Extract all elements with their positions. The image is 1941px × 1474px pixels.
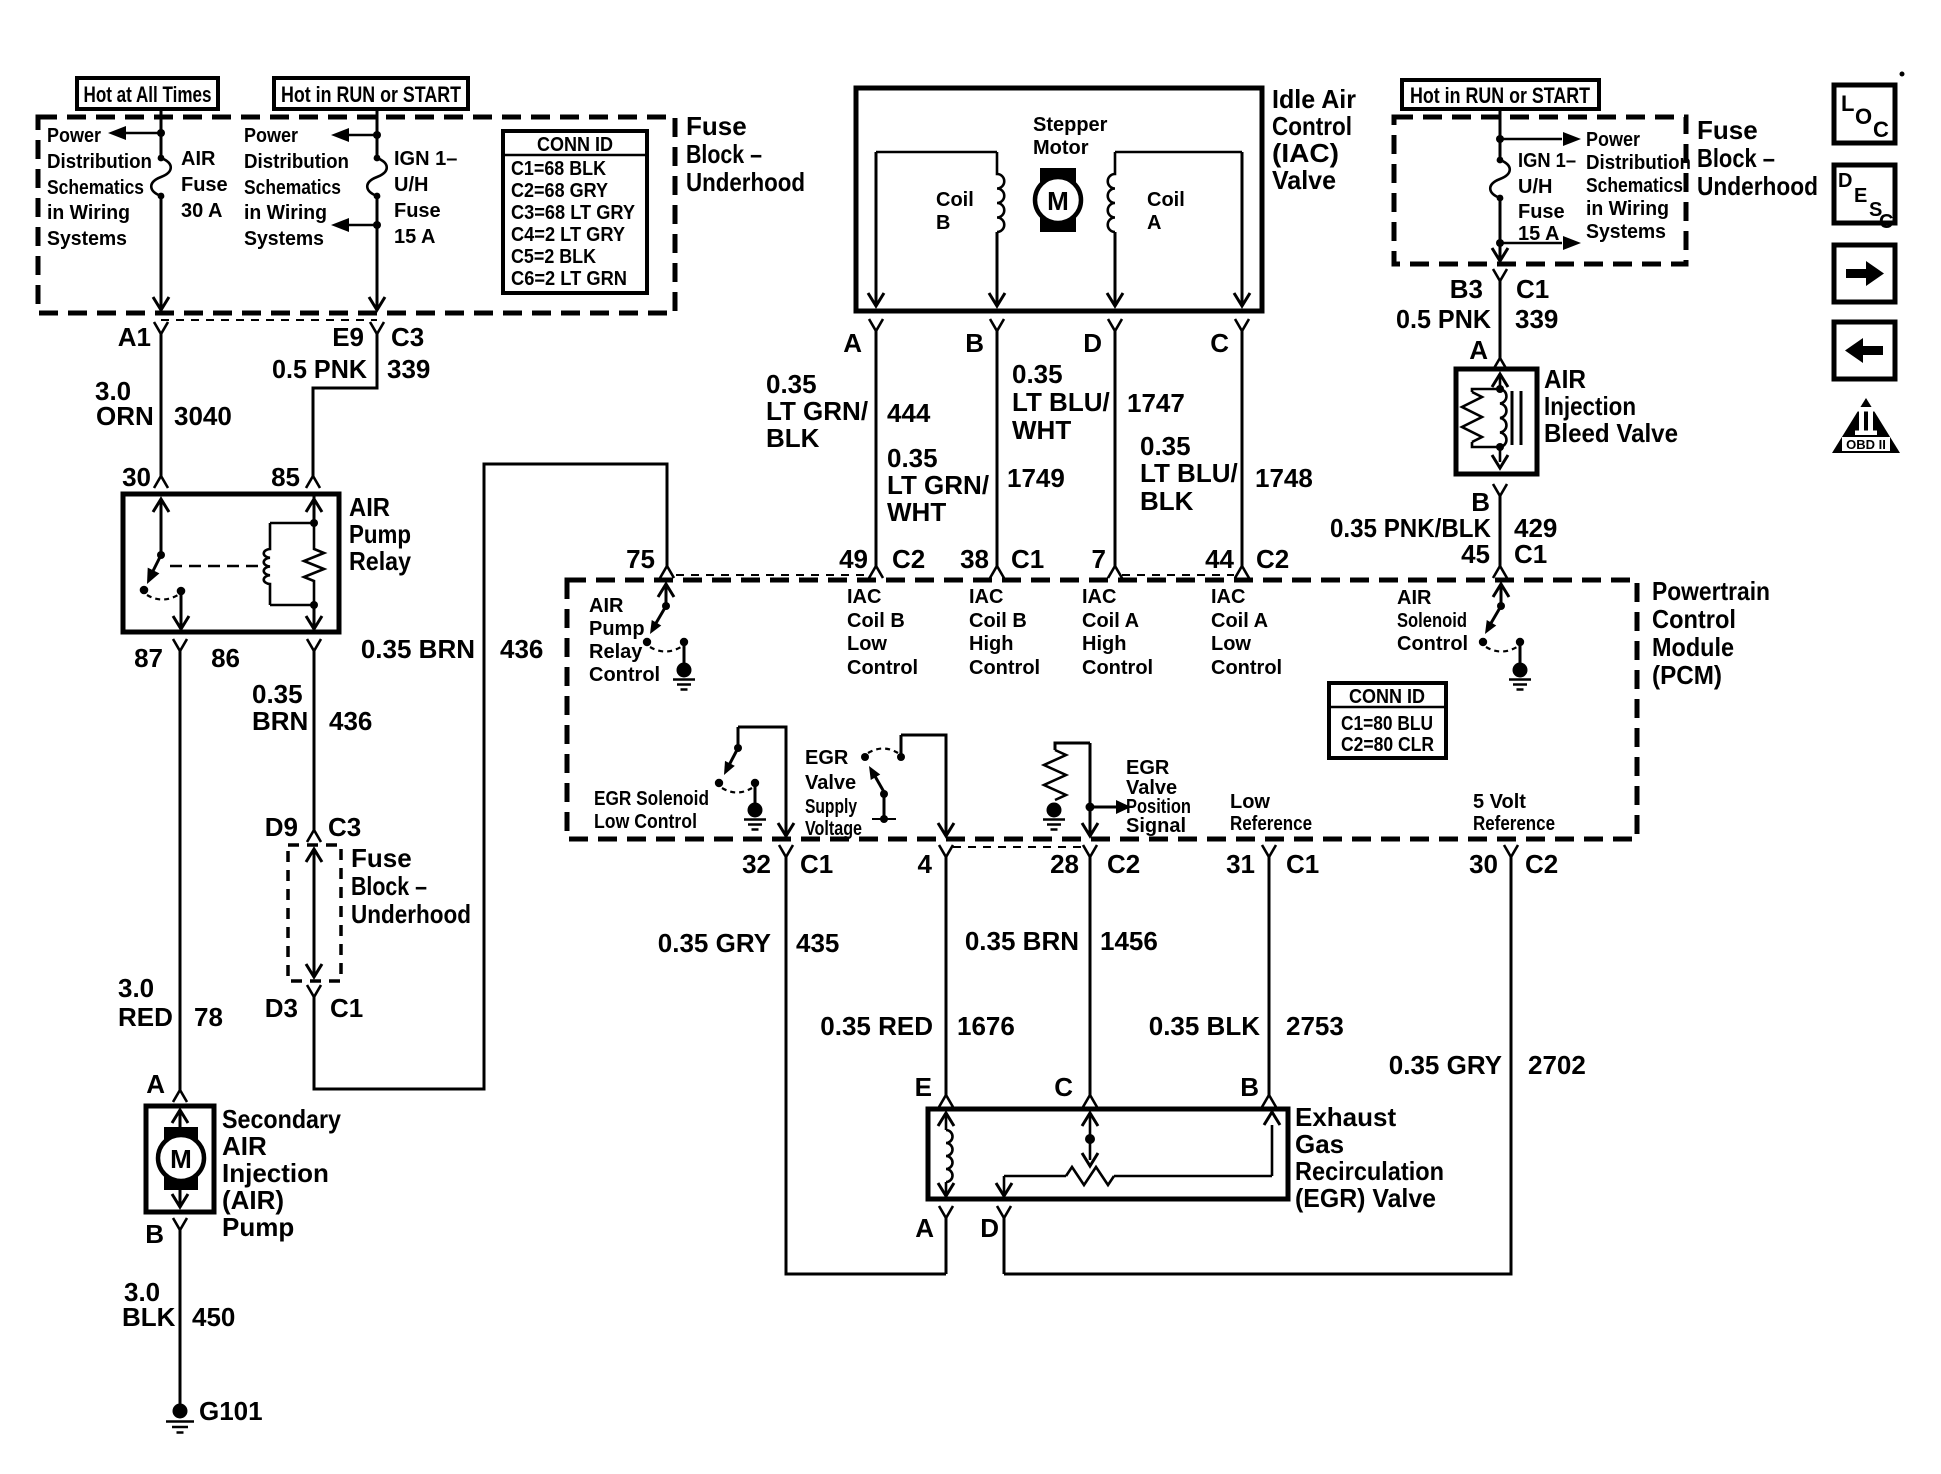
svg-text:Power: Power — [47, 125, 101, 147]
svg-text:Valve: Valve — [805, 772, 856, 794]
connector pin 4 — [939, 845, 953, 857]
EGR coil (pin E to A) — [938, 1113, 954, 1126]
svg-text:86: 86 — [211, 643, 240, 673]
relay coil top bus — [270, 522, 314, 525]
pump motor circle M — [158, 1135, 204, 1181]
svg-text:RED: RED — [118, 1002, 173, 1032]
svg-text:B: B — [965, 328, 984, 358]
svg-text:C: C — [1054, 1072, 1073, 1102]
svg-text:C1: C1 — [800, 849, 833, 879]
icon: back arrow box — [1834, 322, 1895, 379]
svg-text:Block –: Block – — [686, 139, 762, 169]
svg-text:AIR: AIR — [349, 492, 390, 522]
svg-text:Distribution: Distribution — [244, 151, 349, 173]
svg-text:Idle Air: Idle Air — [1272, 84, 1356, 114]
svg-text:C1: C1 — [1011, 544, 1044, 574]
junction dot — [1496, 135, 1504, 143]
svg-text:0.5 PNK: 0.5 PNK — [272, 354, 367, 384]
svg-text:Schematics: Schematics — [1586, 175, 1683, 197]
svg-text:85: 85 — [271, 462, 300, 492]
connector D9 / C3 — [307, 830, 321, 842]
AIR pump relay control driver switch — [658, 584, 674, 597]
svg-text:Pump: Pump — [349, 519, 411, 549]
svg-text:C2=80 CLR: C2=80 CLR — [1341, 734, 1434, 756]
relay pin 87 stem with down arrow — [180, 593, 183, 628]
svg-text:(AIR): (AIR) — [222, 1185, 284, 1215]
svg-text:Systems: Systems — [1586, 221, 1666, 243]
fuse AIR Fuse 30 A — [158, 155, 165, 162]
EGR valve position signal arrow — [1086, 803, 1095, 812]
svg-text:Block –: Block – — [1697, 143, 1775, 173]
relay armature arm — [150, 555, 161, 577]
svg-text:7: 7 — [1092, 544, 1106, 574]
svg-text:A: A — [915, 1213, 934, 1243]
svg-text:Supply: Supply — [805, 796, 858, 818]
svg-text:A: A — [843, 328, 862, 358]
svg-text:Gas: Gas — [1295, 1129, 1344, 1159]
wire: feed from Hot at All Times — [160, 109, 163, 158]
svg-text:C1=80 BLU: C1=80 BLU — [1341, 713, 1433, 735]
connector A1 — [154, 322, 168, 334]
bleed valve pin A arrow — [1492, 374, 1508, 387]
svg-text:0.35 GRY: 0.35 GRY — [1389, 1050, 1502, 1080]
svg-text:Control: Control — [589, 664, 660, 686]
svg-text:435: 435 — [796, 928, 839, 958]
svg-text:Coil: Coil — [936, 189, 974, 211]
svg-text:A: A — [1147, 212, 1161, 234]
svg-text:Control: Control — [969, 657, 1040, 679]
AIR solenoid control driver switch — [1493, 584, 1509, 597]
wire pin 28 inside PCM — [1089, 743, 1092, 834]
svg-text:U/H: U/H — [394, 174, 428, 196]
header box: Hot at All Times — [77, 78, 218, 109]
svg-text:IGN 1–: IGN 1– — [1518, 150, 1576, 172]
svg-text:Secondary: Secondary — [222, 1104, 341, 1134]
svg-text:444: 444 — [887, 398, 931, 428]
wire EGR D down — [1003, 1218, 1006, 1274]
svg-text:Control: Control — [1272, 111, 1352, 141]
EGR wiper (pin C) — [1082, 1113, 1098, 1126]
svg-text:Schematics: Schematics — [47, 177, 144, 199]
scan dot artifact — [1900, 72, 1905, 77]
svg-text:Coil A: Coil A — [1211, 610, 1268, 632]
svg-text:436: 436 — [329, 706, 372, 736]
connector A below IAC — [869, 319, 883, 331]
wire 0.5 PNK 339 (right) — [1499, 281, 1502, 358]
svg-text:Recirculation: Recirculation — [1295, 1156, 1444, 1186]
ground (AIR pump relay control) — [677, 663, 692, 678]
svg-text:Hot in RUN or START: Hot in RUN or START — [281, 82, 461, 107]
svg-text:Module: Module — [1652, 632, 1734, 662]
svg-text:AIR: AIR — [222, 1131, 267, 1161]
connector D below EGR — [997, 1206, 1011, 1218]
fuse block underhood small dashed box — [288, 845, 341, 981]
ground (AIR solenoid control) — [1513, 663, 1528, 678]
svg-text:in Wiring: in Wiring — [1586, 198, 1669, 220]
wire pin 31 to EGR B (0.35 BLK 2753) — [1268, 857, 1271, 1095]
svg-text:31: 31 — [1226, 849, 1255, 879]
junction dot — [157, 129, 165, 137]
svg-text:0.35 BRN: 0.35 BRN — [361, 634, 475, 664]
wire below IGN fuse — [376, 196, 379, 310]
AIR Injection Bleed Valve box — [1456, 369, 1537, 474]
svg-text:E: E — [915, 1072, 932, 1102]
svg-text:IGN 1–: IGN 1– — [394, 148, 457, 170]
relay mechanical dashed link — [170, 565, 258, 568]
CONN ID table (fuse block) — [503, 131, 647, 293]
svg-text:Coil B: Coil B — [847, 610, 905, 632]
connector B3 / C1 — [1493, 269, 1507, 281]
wire 3.0 ORN 3040 — [160, 334, 163, 476]
svg-text:87: 87 — [134, 643, 163, 673]
wire pin 30 to EGR D (0.35 GRY 2702) — [1004, 857, 1511, 1274]
svg-text:M: M — [170, 1144, 192, 1174]
svg-text:4: 4 — [918, 849, 933, 879]
coil B top bus to wire A — [876, 151, 997, 154]
svg-text:IAC: IAC — [969, 586, 1003, 608]
pump down arrow — [179, 1190, 182, 1207]
EGR valve position sense resistor — [1055, 743, 1090, 750]
connector D3 / C1 — [307, 985, 321, 997]
EGR position resistor — [1004, 1175, 1066, 1178]
svg-text:0.35: 0.35 — [1012, 359, 1063, 389]
AIR Pump Relay box — [123, 494, 339, 632]
Exhaust Gas Recirculation (EGR) Valve box — [928, 1109, 1288, 1199]
svg-text:38: 38 — [960, 544, 989, 574]
svg-text:WHT: WHT — [1012, 415, 1071, 445]
svg-text:B: B — [145, 1219, 164, 1249]
relay armature pivot dot — [157, 551, 165, 559]
svg-text:Systems: Systems — [47, 228, 127, 250]
svg-text:C2: C2 — [1256, 544, 1289, 574]
connector pin 32 C1 — [779, 845, 793, 857]
svg-text:Injection: Injection — [222, 1158, 329, 1188]
icon: DESC box — [1834, 165, 1895, 223]
svg-text:EGR: EGR — [1126, 757, 1170, 779]
wire IAC C to pin 44 (0.35 LT BLU/BLK 1748) — [1241, 331, 1244, 566]
connector pin 44 C2 — [1235, 566, 1249, 578]
svg-text:High: High — [969, 633, 1013, 655]
connector D below IAC — [1108, 319, 1122, 331]
header box: Hot in RUN or START (right) — [1402, 80, 1599, 109]
svg-text:Pump: Pump — [589, 618, 645, 640]
svg-text:Voltage: Voltage — [805, 818, 862, 840]
svg-text:2702: 2702 — [1528, 1050, 1586, 1080]
connector pin 7 — [1108, 566, 1122, 578]
svg-text:1749: 1749 — [1007, 463, 1065, 493]
svg-text:Control: Control — [1211, 657, 1282, 679]
wire 86 down (0.35 BRN 436) — [313, 651, 316, 830]
icon: LOC box — [1834, 85, 1895, 143]
svg-text:Powertrain: Powertrain — [1652, 576, 1770, 606]
svg-text:L: L — [1841, 91, 1854, 116]
wire EGR A down — [945, 1218, 948, 1274]
svg-text:C: C — [1879, 211, 1893, 233]
svg-text:B: B — [936, 212, 950, 234]
relay contact dot to pin 87 — [177, 587, 186, 596]
svg-text:A: A — [1469, 335, 1488, 365]
svg-text:in Wiring: in Wiring — [47, 202, 130, 224]
svg-text:0.35: 0.35 — [252, 679, 303, 709]
svg-text:0.35: 0.35 — [1140, 431, 1191, 461]
svg-text:(IAC): (IAC) — [1272, 138, 1339, 168]
Secondary AIR Injection Pump box — [146, 1106, 214, 1212]
svg-text:3040: 3040 — [174, 401, 232, 431]
CONN ID table (PCM) — [1329, 683, 1446, 758]
svg-text:49: 49 — [839, 544, 868, 574]
svg-text:C1: C1 — [330, 993, 363, 1023]
svg-text:Control: Control — [1082, 657, 1153, 679]
svg-text:2753: 2753 — [1286, 1011, 1344, 1041]
svg-text:G101: G101 — [199, 1396, 263, 1426]
relay coil — [264, 523, 270, 605]
svg-text:M: M — [1047, 186, 1069, 216]
Powertrain Control Module (PCM) dashed box — [567, 580, 1637, 839]
svg-text:Relay: Relay — [349, 546, 411, 576]
svg-text:Solenoid: Solenoid — [1397, 610, 1467, 632]
svg-text:B: B — [1240, 1072, 1259, 1102]
svg-text:C1: C1 — [1514, 539, 1547, 569]
svg-text:Schematics: Schematics — [244, 177, 341, 199]
svg-text:High: High — [1082, 633, 1126, 655]
svg-text:Coil B: Coil B — [969, 610, 1027, 632]
svg-text:Low Control: Low Control — [594, 811, 697, 833]
wire pin 28 to EGR C (0.35 BRN 1456) — [1089, 857, 1092, 1095]
wire 3.0 BLK 450 — [179, 1230, 182, 1404]
wire 436 routing to PCM pin 75 — [314, 464, 667, 1089]
svg-text:BLK: BLK — [766, 423, 820, 453]
svg-text:C: C — [1873, 117, 1889, 142]
svg-text:30: 30 — [1469, 849, 1498, 879]
svg-text:0.35 GRY: 0.35 GRY — [658, 928, 771, 958]
svg-text:Injection: Injection — [1544, 391, 1636, 421]
pump up arrow — [179, 1110, 182, 1128]
connector B at AIR pump — [173, 1218, 187, 1230]
svg-text:Distribution: Distribution — [1586, 152, 1691, 174]
coil A top bus to wire C — [1115, 151, 1242, 154]
svg-text:Reference: Reference — [1473, 813, 1555, 835]
fuse block underhood (right) dashed box — [1394, 117, 1686, 264]
svg-text:D3: D3 — [265, 993, 298, 1023]
svg-text:Low: Low — [847, 633, 887, 655]
svg-text:Control: Control — [847, 657, 918, 679]
connector C below IAC — [1235, 319, 1249, 331]
ground (EGR position sense) — [1047, 803, 1062, 818]
relay pin 30 stem with up arrow — [160, 500, 163, 555]
header box: Hot in RUN or START (left) — [274, 78, 468, 109]
svg-text:C3=68 LT GRY: C3=68 LT GRY — [511, 202, 636, 224]
wire 0.35 PNK/BLK 429 — [1499, 496, 1502, 566]
svg-text:U/H: U/H — [1518, 176, 1552, 198]
svg-text:Pump: Pump — [222, 1212, 294, 1242]
svg-text:Stepper: Stepper — [1033, 114, 1108, 136]
thin connector dash (75-49) — [676, 574, 869, 576]
svg-text:Fuse: Fuse — [394, 200, 441, 222]
svg-text:BLK: BLK — [1140, 486, 1194, 516]
svg-text:1747: 1747 — [1127, 388, 1185, 418]
svg-text:Block –: Block – — [351, 871, 427, 901]
EGR valve supply voltage switch — [901, 735, 946, 834]
svg-text:78: 78 — [194, 1002, 223, 1032]
svg-text:IAC: IAC — [1211, 586, 1245, 608]
svg-text:D: D — [1838, 170, 1852, 192]
wire: feed from Hot in RUN or START — [376, 109, 379, 158]
svg-text:Low: Low — [1230, 791, 1270, 813]
svg-text:Underhood: Underhood — [1697, 171, 1818, 201]
coil B winding — [997, 152, 1004, 232]
wire A inside IAC — [875, 152, 878, 305]
svg-text:C: C — [1210, 328, 1229, 358]
thin connector dash (4-28) — [953, 846, 1082, 848]
svg-text:Bleed Valve: Bleed Valve — [1544, 418, 1678, 448]
svg-text:E: E — [1854, 185, 1867, 207]
svg-text:0.35 BRN: 0.35 BRN — [965, 926, 1079, 956]
relay pin 85 stem with up arrow — [313, 496, 316, 523]
svg-text:44: 44 — [1205, 544, 1234, 574]
connector pin 49 C2 — [869, 566, 883, 578]
svg-text:C2: C2 — [1525, 849, 1558, 879]
svg-text:0.35: 0.35 — [766, 369, 817, 399]
svg-text:Coil A: Coil A — [1082, 610, 1139, 632]
svg-text:Relay: Relay — [589, 641, 643, 663]
svg-text:Exhaust: Exhaust — [1295, 1102, 1396, 1132]
svg-text:450: 450 — [192, 1302, 235, 1332]
fuse IGN 1 U/H Fuse 15 A — [374, 155, 381, 162]
svg-text:Fuse: Fuse — [686, 111, 747, 141]
junction dot with arrow (Systems) — [373, 221, 381, 229]
svg-text:Reference: Reference — [1230, 813, 1312, 835]
svg-text:Fuse: Fuse — [1518, 201, 1565, 223]
svg-text:IAC: IAC — [1082, 586, 1116, 608]
relay resistor — [304, 523, 324, 605]
svg-text:EGR: EGR — [805, 747, 849, 769]
bleed valve coil — [1500, 389, 1506, 447]
svg-text:EGR Solenoid: EGR Solenoid — [594, 788, 709, 810]
svg-text:LT BLU/: LT BLU/ — [1140, 458, 1238, 488]
junction dot with arrow (right lower) — [1496, 239, 1504, 247]
wire D inside IAC — [1114, 232, 1117, 305]
svg-text:LT GRN/: LT GRN/ — [766, 396, 868, 426]
pump motor black rect — [164, 1127, 198, 1190]
svg-text:in Wiring: in Wiring — [244, 202, 327, 224]
wire pin 4 to EGR E (0.35 RED 1676) — [945, 857, 948, 1095]
ground (EGR solenoid low control) — [748, 803, 763, 818]
connector dashed line A1-E9 — [161, 319, 377, 321]
svg-text:C1: C1 — [1286, 849, 1319, 879]
svg-text:Underhood: Underhood — [686, 167, 805, 197]
svg-text:CONN ID: CONN ID — [537, 134, 613, 156]
svg-text:Control: Control — [1397, 633, 1468, 655]
EGR resistor end to pin D — [1003, 1176, 1006, 1196]
fuse IGN 1 U/H Fuse 15 A (right) — [1497, 157, 1504, 164]
Idle Air Control (IAC) Valve box — [856, 88, 1262, 311]
connector A below EGR — [939, 1206, 953, 1218]
wire below AIR fuse — [160, 196, 163, 310]
wire 87 to AIR pump (3.0 RED 78) — [179, 651, 182, 1090]
junction dot — [373, 131, 381, 139]
svg-text:C1: C1 — [1516, 274, 1549, 304]
svg-text:BRN: BRN — [252, 706, 308, 736]
relay contact dashed arc — [147, 595, 178, 600]
svg-text:Hot in RUN or START: Hot in RUN or START — [1410, 83, 1590, 108]
svg-text:Systems: Systems — [244, 228, 324, 250]
svg-text:D: D — [1083, 328, 1102, 358]
svg-text:AIR: AIR — [1397, 587, 1432, 609]
arrow to Power Distribution (right upper) — [1500, 138, 1562, 141]
svg-text:C2=68 GRY: C2=68 GRY — [511, 180, 609, 202]
svg-text:LT GRN/: LT GRN/ — [887, 470, 989, 500]
svg-text:C2: C2 — [892, 544, 925, 574]
svg-text:AIR: AIR — [1544, 364, 1586, 394]
svg-text:339: 339 — [1515, 304, 1558, 334]
relay pin 86 stem with down arrow — [313, 605, 316, 628]
svg-text:LT BLU/: LT BLU/ — [1012, 387, 1110, 417]
svg-text:D9: D9 — [265, 812, 298, 842]
svg-text:5 Volt: 5 Volt — [1473, 791, 1526, 813]
arrow to Power Distribution (left wire 2 upper) — [348, 134, 377, 137]
svg-text:Underhood: Underhood — [351, 899, 471, 929]
svg-text:Control: Control — [1652, 604, 1736, 634]
svg-text:Fuse: Fuse — [351, 843, 412, 873]
svg-text:Power: Power — [244, 125, 298, 147]
bleed valve core bars — [1511, 391, 1514, 445]
svg-text:A1: A1 — [118, 322, 151, 352]
svg-text:339: 339 — [387, 354, 430, 384]
stepper motor symbol — [1040, 168, 1076, 232]
svg-text:D: D — [980, 1213, 999, 1243]
wire: feed from Hot in RUN or START (right) — [1499, 109, 1502, 160]
connector pin 38 C1 — [990, 566, 1004, 578]
thin connector dash (7-44) — [1122, 574, 1234, 576]
svg-text:0.35 BLK: 0.35 BLK — [1149, 1011, 1260, 1041]
svg-text:3.0: 3.0 — [118, 973, 154, 1003]
connector B below IAC — [990, 319, 1004, 331]
wire C inside IAC — [1241, 152, 1244, 305]
svg-text:75: 75 — [626, 544, 655, 574]
svg-text:15 A: 15 A — [394, 226, 436, 248]
svg-text:C4=2 LT GRY: C4=2 LT GRY — [511, 224, 626, 246]
svg-text:C5=2 BLK: C5=2 BLK — [511, 246, 596, 268]
svg-text:CONN ID: CONN ID — [1349, 686, 1425, 708]
fuse block underhood (left) dashed box — [38, 117, 675, 313]
bleed valve resistor — [1472, 389, 1500, 392]
svg-text:AIR: AIR — [589, 595, 624, 617]
EGR resistor end to pin B — [1271, 1125, 1274, 1176]
svg-text:Fuse: Fuse — [181, 174, 228, 196]
connector pin 87 — [173, 639, 187, 651]
connector E9 / C3 — [370, 322, 384, 334]
svg-text:28: 28 — [1050, 849, 1079, 879]
svg-text:Valve: Valve — [1272, 165, 1336, 195]
svg-text:1456: 1456 — [1100, 926, 1158, 956]
svg-text:Distribution: Distribution — [47, 151, 152, 173]
svg-text:Motor: Motor — [1033, 137, 1089, 159]
ground G101 — [173, 1404, 188, 1419]
svg-text:Power: Power — [1586, 129, 1640, 151]
svg-text:30 A: 30 A — [181, 200, 223, 222]
svg-text:E9: E9 — [332, 322, 364, 352]
svg-text:IAC: IAC — [847, 586, 881, 608]
wire IAC A to pin 49 (0.35 LT GRN/BLK 444) — [875, 331, 878, 566]
EGR solenoid low control driver switch — [738, 727, 786, 834]
svg-text:Signal: Signal — [1126, 815, 1186, 837]
svg-text:Fuse: Fuse — [1697, 115, 1758, 145]
connector pin 30 C2 — [1504, 845, 1518, 857]
wire IAC D to pin 7 (0.35 LT BLU/WHT 1747) — [1114, 331, 1117, 566]
svg-text:C3: C3 — [391, 322, 424, 352]
relay coil junction dots — [310, 519, 318, 527]
svg-text:1676: 1676 — [957, 1011, 1015, 1041]
